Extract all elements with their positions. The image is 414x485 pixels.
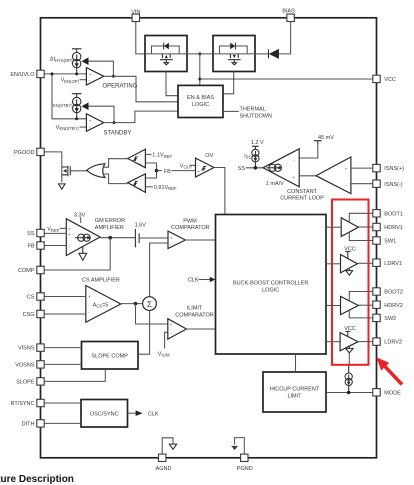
node between pass FETs	[198, 52, 201, 55]
svg-text:LIMIT: LIMIT	[287, 393, 302, 399]
svg-text:FB: FB	[27, 244, 34, 250]
svg-text:BOOT1: BOOT1	[384, 211, 403, 217]
transistor PGOOD open-drain FET	[62, 166, 71, 177]
svg-text:Σ: Σ	[147, 300, 152, 309]
battery 1.6V offset	[135, 229, 139, 248]
svg-text:1.1VREF: 1.1VREF	[152, 153, 172, 159]
svg-text:VCC: VCC	[384, 77, 396, 83]
wire COMP pin up to gm out	[44, 238, 110, 270]
svg-text:MODE: MODE	[384, 390, 401, 396]
wire 0.91Vref stub	[145, 186, 153, 188]
wire standby output to EN&BIAS	[104, 111, 178, 123]
svg-text:VEN(STBY): VEN(STBY)	[56, 125, 80, 131]
svg-text:+: +	[170, 322, 173, 327]
pin AGND	[159, 454, 166, 461]
wire slope comp out to summer	[138, 311, 150, 355]
svg-text:HDRV1: HDRV1	[384, 225, 403, 231]
pin FB	[37, 242, 44, 249]
ground under driver4	[346, 346, 354, 353]
wire Ven(op) stub	[80, 79, 87, 81]
wire 45mV to gm - input	[299, 144, 318, 159]
op-amp GM ERROR AMPLIFIER	[66, 219, 100, 256]
svg-text:COMPARATOR: COMPARATOR	[171, 225, 210, 231]
pin DITH	[37, 420, 44, 427]
wire EN down to standby	[52, 74, 86, 119]
wire driver4 ground to current source	[348, 353, 350, 365]
wire PGND symbol	[235, 438, 245, 455]
wire driver1 to HDRV1	[358, 226, 372, 228]
svg-text:COMPARATOR: COMPARATOR	[175, 312, 214, 318]
svg-text:GM ERROR: GM ERROR	[95, 218, 125, 224]
pin SS	[37, 229, 44, 236]
svg-text:+: +	[197, 170, 200, 175]
svg-text:VILIM: VILIM	[158, 351, 170, 357]
node FB dot	[155, 169, 159, 173]
svg-text:ACS=5: ACS=5	[93, 302, 109, 308]
svg-text:SS: SS	[27, 231, 35, 237]
pin SLOPE	[37, 378, 44, 385]
pin ISNS(+)	[373, 164, 380, 171]
svg-text:BIAS: BIAS	[282, 9, 295, 15]
wire VCC into driver4	[345, 331, 350, 336]
op-amp constant current gm (1 mA/V)	[263, 149, 299, 187]
pin MODE	[373, 389, 380, 396]
wire thermal shutdown stub	[223, 110, 239, 112]
svg-text:SHUTDOWN: SHUTDOWN	[240, 113, 272, 119]
red annotation arrow	[376, 357, 403, 386]
svg-text:CLK: CLK	[188, 278, 199, 284]
wire driver2 to LDRV1	[357, 262, 372, 264]
Q1 mosfet gate structure	[160, 54, 173, 62]
wire ILIMIT output to controller	[186, 328, 215, 330]
svg-text:DITH: DITH	[22, 422, 35, 428]
pin BOOT1	[373, 210, 380, 217]
svg-text:EN/UVLO: EN/UVLO	[10, 72, 35, 78]
ground under gm error amp	[79, 247, 87, 261]
wire gate to OR output	[70, 170, 86, 172]
wire battery to PWM +	[139, 237, 168, 239]
wire controller to driver4	[326, 341, 340, 343]
svg-text:VISNS: VISNS	[18, 346, 35, 352]
svg-text:VEN(OP): VEN(OP)	[61, 78, 80, 84]
svg-text:ΔIHYS(OP): ΔIHYS(OP)	[50, 57, 73, 63]
svg-text:RT/SYNC: RT/SYNC	[10, 401, 34, 407]
wire controller to driver3	[326, 305, 341, 307]
wire mid node down to EN&BIAS	[199, 54, 201, 86]
driver U3 HDRV2	[341, 296, 359, 314]
wire CLK arrow into controller	[199, 279, 211, 281]
svg-text:HICCUP CURRENT: HICCUP CURRENT	[270, 386, 320, 392]
svg-text:PWM: PWM	[183, 218, 197, 224]
svg-text:+: +	[292, 175, 295, 180]
current source symbol inside gm error amp	[78, 234, 85, 241]
svg-text:IEN(STBY): IEN(STBY)	[51, 102, 73, 108]
wire sum to PWM - input	[150, 243, 168, 297]
svg-text:LDRV2: LDRV2	[384, 340, 402, 346]
arrowhead into stby current source	[82, 102, 89, 110]
wire CSG pin to amp	[44, 313, 86, 315]
wire comp B - input to FB node	[145, 171, 156, 178]
svg-text:ISS: ISS	[244, 153, 251, 159]
pass FET box Q1	[145, 36, 187, 72]
pin RT/SYNC	[37, 399, 44, 406]
wire Ven(stby) stub	[80, 126, 87, 128]
pin BOOT2	[373, 288, 380, 295]
wire hysteresis feedback operating	[88, 61, 113, 76]
wire FB pin to gm error amp	[44, 245, 66, 247]
svg-text:BOOT2: BOOT2	[384, 290, 403, 296]
wire 1.1Vref stub	[145, 153, 151, 155]
supply bar above op current source	[72, 49, 82, 53]
pin PGOOD	[37, 148, 44, 155]
wire BOOT1 to driver1 top	[349, 213, 373, 222]
wire PGOOD to FET drain	[44, 152, 62, 182]
svg-text:+: +	[139, 186, 142, 191]
svg-text:CSG: CSG	[23, 312, 35, 318]
wire Q1 gate to logic	[166, 72, 178, 96]
Q2 body diode branch	[220, 46, 231, 54]
red highlight rectangle around gate drivers	[332, 200, 369, 365]
wire operating output to EN&BIAS	[104, 76, 178, 102]
pin LDRV1	[373, 259, 380, 266]
svg-text:LOGIC: LOGIC	[262, 287, 279, 293]
ground PGND (signal ground arrow)	[232, 445, 238, 447]
comparator PWM	[168, 231, 185, 248]
wire CS amp out to summer	[121, 303, 143, 305]
svg-text:+: +	[139, 162, 142, 167]
svg-text:CS AMPLIFIER: CS AMPLIFIER	[82, 278, 120, 284]
supply bar 1.2V	[252, 146, 259, 149]
pin LDRV2	[373, 338, 380, 345]
current source Ien(stby)	[73, 97, 81, 105]
wire SS stub to node	[246, 167, 263, 169]
svg-text:SW2: SW2	[384, 316, 396, 322]
wire OV output down to controller	[214, 168, 225, 215]
wire SLOPE to slope comp bottom	[44, 369, 105, 381]
driver U4 LDRV2	[340, 333, 358, 351]
pin SW2	[373, 314, 380, 321]
wire hiccup out to MODE	[326, 392, 373, 394]
pin VOSNS	[37, 361, 44, 368]
svg-text:BUCK-BOOST CONTROLLER: BUCK-BOOST CONTROLLER	[233, 280, 308, 286]
comparator OV	[196, 158, 215, 177]
svg-text:SLOPE: SLOPE	[16, 380, 35, 386]
block HICCUP CURRENT LIMIT	[263, 372, 326, 412]
wire PWM output to controller	[185, 239, 215, 241]
svg-text:VREF: VREF	[47, 227, 59, 233]
pin HDRV2	[373, 301, 380, 308]
svg-text:+: +	[170, 236, 173, 241]
op-amp ISNS sense	[316, 157, 351, 194]
pin ISNS(-)	[373, 180, 380, 187]
arrowhead into op current source	[82, 57, 89, 65]
wire ISNS(+) to amp	[351, 167, 373, 169]
svg-text:LDRV1: LDRV1	[384, 261, 402, 267]
wire VOSNS to slope comp	[44, 363, 81, 365]
svg-text:EN & BIAS: EN & BIAS	[187, 95, 214, 101]
svg-text:1.2 V: 1.2 V	[251, 140, 264, 146]
svg-text:VOUT: VOUT	[180, 163, 193, 169]
svg-text:AGND: AGND	[156, 466, 172, 472]
node EN wire dot1	[51, 72, 54, 75]
summer sigma	[143, 297, 157, 311]
ground under driver2	[346, 269, 353, 276]
node CS out dot	[134, 302, 138, 306]
svg-text:SS: SS	[238, 166, 246, 172]
Q1 body diode branch	[152, 46, 164, 54]
wire SW1 to driver1 bottom	[349, 232, 373, 240]
svg-text:ILIMIT: ILIMIT	[187, 306, 203, 312]
wire Vout stub to OV - input	[190, 164, 196, 166]
wire Vref stub	[60, 227, 67, 229]
svg-text:OV: OV	[205, 153, 213, 159]
comparator OPERATING	[86, 68, 103, 85]
block BUCK-BOOST CONTROLLER LOGIC	[216, 215, 327, 355]
wire Q1 to Q2	[187, 53, 213, 55]
svg-text:1 mA/V: 1 mA/V	[266, 181, 284, 187]
pin BIAS	[287, 14, 294, 21]
node SS dot	[254, 166, 258, 170]
block EN & BIAS LOGIC	[178, 85, 223, 117]
wire comparator B to OR input	[103, 174, 128, 184]
Q2 mosfet gate structure	[228, 54, 241, 62]
current source dIhys(op)	[73, 52, 81, 60]
supply bar 45mV	[314, 141, 322, 144]
supply bar above stby current source	[72, 94, 82, 98]
pin EN/UVLO	[37, 70, 44, 77]
svg-text:AMPLIFIER: AMPLIFIER	[95, 225, 124, 231]
pin VISNS	[37, 344, 44, 351]
wire driver3 to HDRV2	[358, 304, 372, 306]
wire AGND symbol	[162, 438, 173, 454]
svg-text:PGND: PGND	[237, 466, 253, 472]
wire SW2 to driver3 bottom	[349, 310, 373, 318]
svg-text:+: +	[68, 232, 71, 237]
wire CLK output arrow	[128, 412, 137, 414]
svg-text:OPERATING: OPERATING	[103, 84, 138, 90]
wire controller to hiccup	[295, 354, 297, 372]
pin PGND	[241, 454, 248, 461]
node EN wire dot2	[75, 72, 78, 75]
comparator STANDBY	[86, 114, 103, 131]
wire VISNS to slope comp	[44, 347, 81, 349]
svg-text:SW1: SW1	[384, 239, 396, 245]
wire Vilim stub	[165, 332, 168, 348]
pin VCC	[373, 75, 380, 82]
svg-text:LOGIC: LOGIC	[192, 102, 209, 108]
svg-text:+: +	[345, 167, 348, 172]
ground under PGOOD FET	[59, 184, 66, 189]
wire RT/SYNC to osc	[44, 402, 81, 404]
node VCC branch dot	[198, 78, 201, 81]
wire CS pin to amp	[44, 296, 86, 298]
Q2 through wire	[213, 53, 255, 55]
wire controller to driver2	[326, 263, 341, 265]
svg-text:CLK: CLK	[148, 411, 159, 417]
svg-text:FB: FB	[164, 169, 171, 175]
svg-text:SLOPE COMP: SLOPE COMP	[92, 353, 129, 359]
svg-text:45 mV: 45 mV	[318, 135, 334, 141]
svg-text:1.6V: 1.6V	[135, 222, 147, 228]
svg-text:CURRENT LOOP: CURRENT LOOP	[280, 196, 324, 202]
svg-text:THERMAL: THERMAL	[240, 106, 266, 112]
comparator PGOOD-OV (1.1Vref)	[128, 149, 146, 168]
pin SW1	[373, 237, 380, 244]
current source at MODE	[345, 373, 352, 380]
node MODE junction dot	[347, 391, 351, 395]
wire VCC rail to pin	[200, 78, 373, 80]
wire Q2 gate to logic	[223, 72, 234, 94]
node operating output dot	[112, 75, 115, 78]
wire DITH to osc	[44, 422, 81, 424]
heading text cut off at page bottom	[0, 474, 74, 485]
current source symbol inside gm amp	[269, 164, 276, 171]
svg-text:CONSTANT: CONSTANT	[287, 189, 317, 195]
svg-text:+: +	[89, 72, 92, 77]
wire FB label to OV	[171, 170, 195, 172]
comparator ILIMIT	[168, 319, 187, 339]
comparator PGOOD-UV (0.91Vref)	[128, 174, 146, 193]
wire controller to driver1	[326, 226, 341, 228]
pin VIN	[132, 14, 139, 21]
wire hysteresis feedback standby	[88, 106, 114, 122]
OR gate (pointing left)	[87, 164, 105, 178]
ground AGND	[169, 444, 176, 449]
svg-text:STANDBY: STANDBY	[104, 130, 132, 136]
wire comparator A to OR input	[103, 159, 128, 168]
driver U2 LDRV1	[341, 255, 358, 273]
node standby output dot	[113, 121, 116, 124]
diode D1 to BIAS	[255, 53, 268, 55]
wire EN/UVLO to comparators	[44, 73, 86, 75]
svg-text:CS: CS	[27, 295, 35, 301]
wire VIN down	[136, 22, 145, 54]
svg-text:VOSNS: VOSNS	[15, 363, 35, 369]
svg-text:PGOOD: PGOOD	[14, 150, 35, 156]
svg-text:ISNS(+): ISNS(+)	[384, 166, 404, 172]
wire BOOT2 to driver3 top	[349, 292, 373, 302]
wire driver4 to LDRV2	[358, 341, 373, 343]
driver U1 HDRV1	[341, 218, 358, 237]
svg-text:+: +	[88, 294, 91, 299]
wire SS pin to gm error amp	[44, 232, 66, 234]
wire gm out to battery	[100, 237, 135, 239]
wire FB net to OV + input	[157, 170, 162, 172]
block OSC/SYNC	[81, 400, 128, 428]
svg-text:+: +	[68, 226, 71, 231]
svg-text:+: +	[89, 118, 92, 123]
node standby dot	[75, 117, 78, 120]
wire 3.3V stub	[80, 217, 82, 223]
wire comp A + input to FB node	[145, 163, 156, 171]
Q1 through wire	[145, 53, 187, 55]
wire VCC into driver2	[345, 252, 350, 259]
pin HDRV1	[373, 223, 380, 230]
block SLOPE COMP	[82, 342, 139, 370]
op-amp CS AMPLIFIER	[86, 286, 121, 323]
svg-text:3.3V: 3.3V	[74, 212, 86, 218]
wire ISNS(-) to amp	[351, 183, 373, 185]
svg-text:ISNS(-): ISNS(-)	[384, 182, 403, 188]
wire CS out down to ilimit +	[136, 304, 168, 324]
svg-text:OSC/SYNC: OSC/SYNC	[90, 411, 119, 417]
pass FET box Q2	[213, 36, 255, 72]
pin CSG	[37, 310, 44, 317]
svg-text:COMP: COMP	[18, 268, 35, 274]
pin COMP	[37, 266, 44, 273]
pin CS	[37, 293, 44, 300]
wire isns amp out to gm + input	[299, 175, 316, 177]
node gm out dot	[108, 236, 112, 240]
outer IC boundary	[41, 18, 377, 458]
svg-text:0.91VREF: 0.91VREF	[154, 185, 177, 191]
current source Iss	[252, 149, 259, 156]
svg-text:HDRV2: HDRV2	[384, 303, 403, 309]
svg-text:VIN: VIN	[131, 9, 140, 15]
